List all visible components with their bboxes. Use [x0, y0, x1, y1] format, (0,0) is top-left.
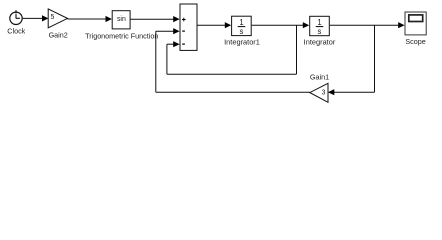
- junction after Integrator1, node xdot: [296, 25, 298, 74]
- wire feedback xdot to Sum port3: [167, 73, 297, 75]
- sign minus port2: [182, 30, 185, 32]
- svg-text:1: 1: [239, 18, 243, 27]
- svg-text:1: 1: [317, 18, 321, 27]
- wire Integrator1 to Integrator: [252, 24, 304, 26]
- gain block Gain1: [310, 83, 328, 102]
- sum block: [180, 4, 197, 50]
- integrator block Integrator1: [232, 16, 252, 35]
- svg-text:Trigonometric Function: Trigonometric Function: [85, 32, 158, 41]
- scope block Scope: [405, 12, 426, 35]
- svg-text:s: s: [318, 27, 322, 36]
- svg-text:sin: sin: [117, 16, 126, 23]
- svg-text:Clock: Clock: [7, 26, 25, 35]
- svg-text:Gain1: Gain1: [310, 72, 329, 81]
- gain block Gain2: [48, 9, 67, 28]
- svg-text:Integrator: Integrator: [304, 37, 336, 46]
- wire sin to Sum port1: [131, 18, 175, 20]
- clock source block Clock: [10, 10, 22, 24]
- wire Integrator to Scope: [330, 24, 400, 26]
- wire Clock to Gain2: [22, 17, 43, 19]
- wire Sum to Integrator1: [198, 24, 227, 26]
- svg-text:Gain2: Gain2: [49, 30, 68, 39]
- svg-text:Scope: Scope: [405, 37, 425, 46]
- junction after Integrator, node x: [374, 25, 376, 92]
- sign plus port1: [182, 18, 186, 22]
- integrator block Integrator: [310, 16, 330, 35]
- svg-text:Integrator1: Integrator1: [224, 37, 260, 46]
- wire x to Gain1 input: [334, 91, 375, 93]
- wire Gain1 to Sum port2: [156, 91, 310, 93]
- svg-text:5: 5: [50, 14, 54, 21]
- svg-text:s: s: [240, 27, 244, 36]
- svg-text:3: 3: [322, 90, 326, 97]
- trigonometric function block sin: [112, 11, 130, 29]
- wire Gain2 to sin: [68, 18, 107, 20]
- sign minus port3: [182, 43, 185, 45]
